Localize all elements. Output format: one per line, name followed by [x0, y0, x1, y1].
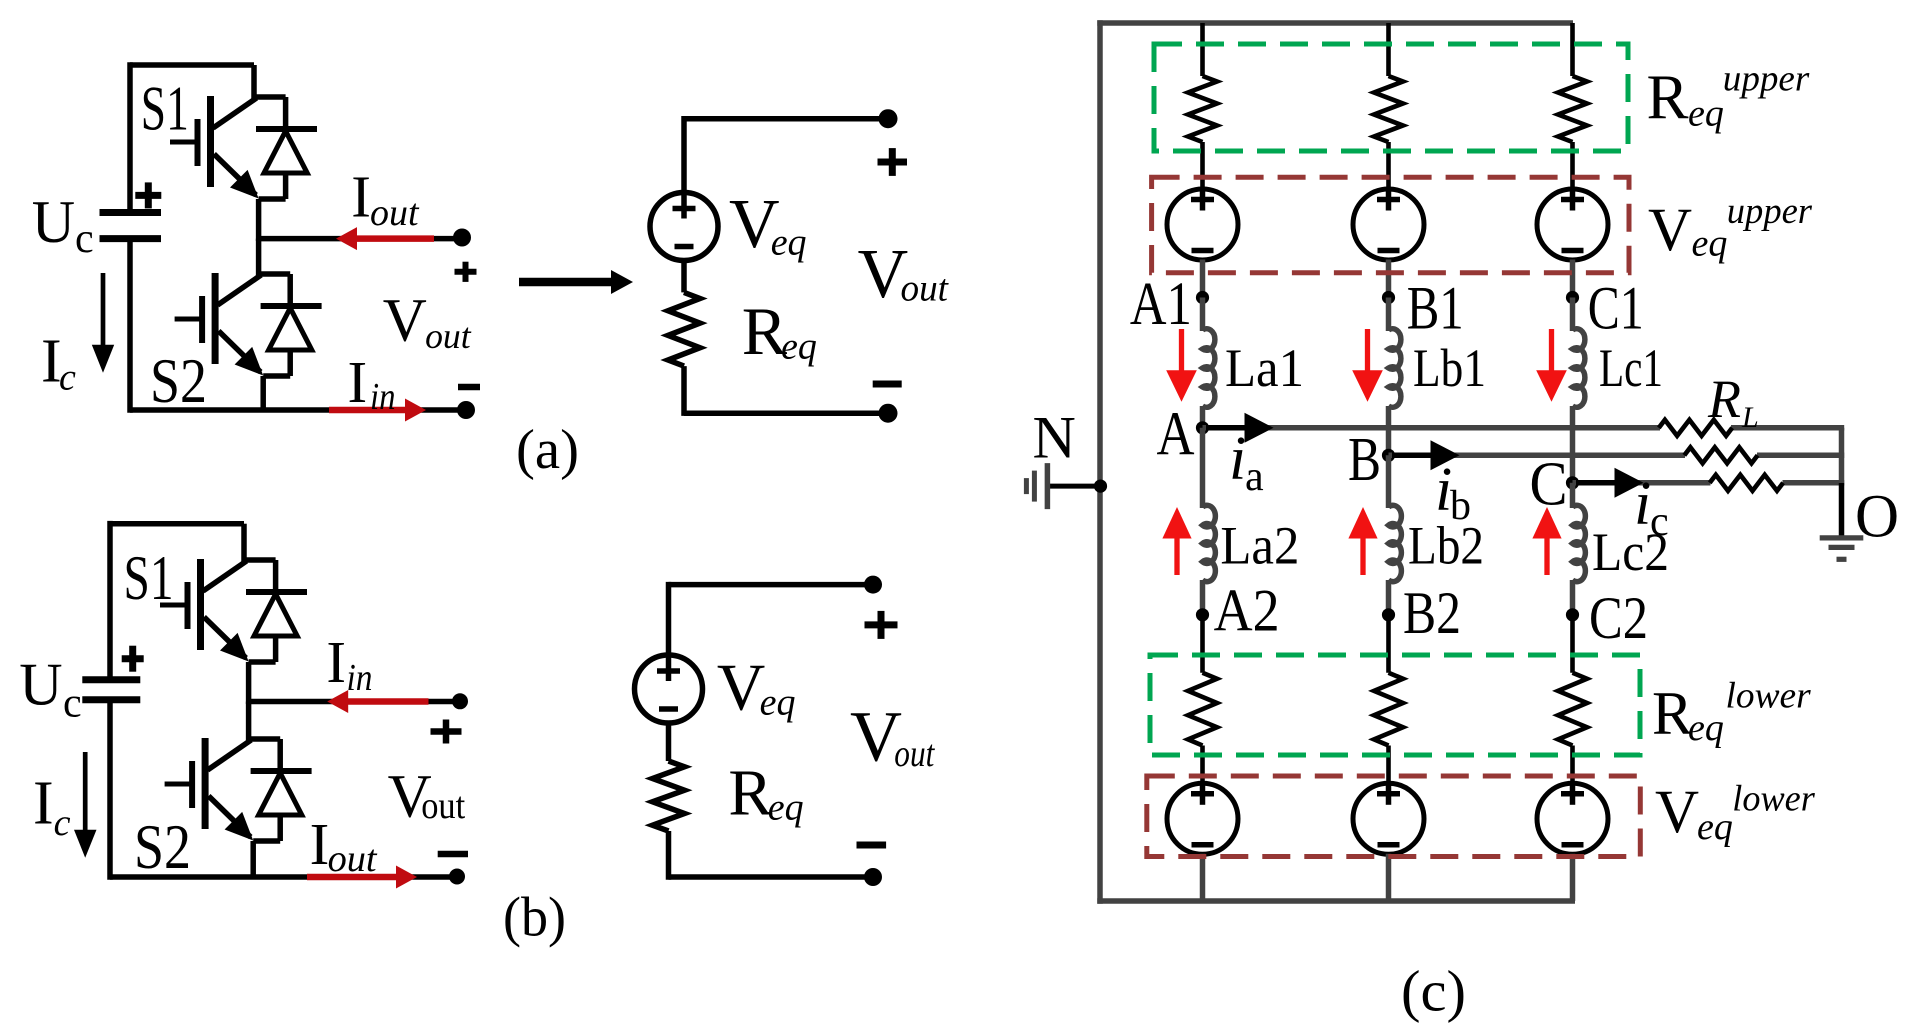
- wire node B to lower inductor (c): [1386, 455, 1392, 508]
- wire S1 collector stem (a): [251, 65, 257, 100]
- svg-text:S1: S1: [124, 543, 174, 613]
- node + terminal (b): [452, 693, 468, 709]
- inductor Lc2 (c): [1573, 505, 1586, 581]
- node + terminal eq(a): [879, 109, 898, 128]
- svg-text:upper: upper: [1723, 59, 1810, 100]
- svg-text:Lc2: Lc2: [1592, 522, 1669, 582]
- wire bottom rail eq(a): [684, 410, 888, 416]
- voltage source Veq lower phase B (c): [1353, 783, 1424, 854]
- wire Veq to Req (b): [666, 723, 672, 761]
- wire output mid rail (b): [249, 699, 460, 705]
- wire inductor to node C (c): [1570, 406, 1576, 483]
- svg-text:upper: upper: [1727, 191, 1813, 232]
- voltage source Veq lower phase C (c): [1537, 783, 1608, 854]
- svg-text:c: c: [54, 802, 71, 844]
- wire source to node B1 (c): [1386, 260, 1392, 300]
- svg-text:out: out: [370, 192, 420, 234]
- inductor La1 (c): [1203, 329, 1215, 408]
- wire bottom rail (a): [130, 407, 466, 413]
- wire resistor to source phase A (c): [1200, 142, 1205, 190]
- wire N to ground (c): [1047, 484, 1100, 489]
- svg-text:out: out: [421, 785, 465, 827]
- svg-text:in: in: [370, 376, 396, 418]
- arrow current up Lc2 (c): [1544, 534, 1549, 575]
- arrow current up Lb2 (c): [1360, 534, 1365, 575]
- svg-text:I: I: [326, 629, 346, 695]
- svg-text:lower: lower: [1726, 676, 1812, 717]
- ground N (c): [1045, 463, 1051, 509]
- resistor Req lower phase C (c): [1558, 673, 1587, 746]
- wire inductor to node A (c): [1200, 406, 1206, 428]
- svg-text:i: i: [1229, 425, 1246, 493]
- wire top stub phase A (c): [1200, 23, 1205, 76]
- inductor Lb2 (c): [1389, 505, 1402, 581]
- svg-text:lower: lower: [1732, 778, 1815, 819]
- svg-text:S1: S1: [141, 74, 189, 144]
- svg-text:L: L: [1741, 401, 1759, 434]
- wire Veq to Req (a): [681, 261, 687, 293]
- svg-text:V: V: [383, 287, 427, 354]
- transistor S1 (a): [207, 96, 214, 187]
- wire S1 emitter to midpoint (a): [256, 199, 262, 241]
- transistor S2 (b): [202, 738, 209, 829]
- arrow current down La1 (c): [1179, 329, 1184, 375]
- svg-text:a: a: [1245, 454, 1264, 500]
- arrow Ic (b): [83, 752, 88, 834]
- capacitor Uc (a): [100, 209, 162, 216]
- diode of S1 (a): [254, 94, 286, 100]
- node output + terminal (a): [453, 229, 471, 247]
- label + eq(b): [865, 621, 898, 628]
- inductor Lb1 (c): [1389, 329, 1401, 408]
- node - terminal (b): [449, 869, 465, 885]
- wire node A1 to inductor (c): [1200, 298, 1206, 332]
- resistor RL phase C (c): [1710, 475, 1783, 491]
- transistor S1 (b): [197, 559, 204, 650]
- wire inductor to node B (c): [1386, 406, 1392, 455]
- svg-text:V: V: [717, 651, 765, 725]
- wire phase line B (c): [1389, 453, 1686, 459]
- wire Req to bottom rail (a): [681, 366, 687, 416]
- wire resistor to lower source phase B (c): [1386, 746, 1391, 785]
- wire bottom rail (c): [1097, 898, 1575, 904]
- node - terminal eq(b): [864, 868, 882, 886]
- wire Req to bottom rail (b): [666, 831, 672, 880]
- svg-text:eq: eq: [1688, 93, 1724, 135]
- voltage source Veq upper phase C (c): [1537, 189, 1608, 260]
- wire S2 collector stem (b): [246, 702, 252, 743]
- svg-text:eq: eq: [781, 326, 817, 368]
- svg-text:U: U: [32, 189, 75, 255]
- wire S2 collector stem (a): [256, 239, 262, 277]
- wire lower source to bottom rail phase B (c): [1386, 854, 1392, 901]
- svg-text:I: I: [351, 163, 371, 229]
- resistor Req upper phase C (c): [1558, 76, 1587, 142]
- svg-text:Lc1: Lc1: [1599, 338, 1663, 398]
- label - Vout terminal (b): [438, 851, 468, 858]
- wire S1 collector stem (b): [241, 524, 247, 563]
- wire source to node C1 (c): [1570, 260, 1576, 300]
- svg-text:Lb2: Lb2: [1408, 516, 1484, 576]
- label + Vout terminal (a): [455, 269, 477, 275]
- arrow Iin (a): [329, 407, 408, 414]
- arrow equivalence (a): [519, 278, 614, 287]
- label + of Uc (a): [135, 192, 161, 199]
- svg-text:(b): (b): [503, 887, 566, 949]
- svg-text:La1: La1: [1225, 338, 1304, 398]
- resistor Req (a): [668, 292, 700, 366]
- svg-text:S2: S2: [150, 346, 207, 416]
- svg-text:B2: B2: [1403, 580, 1461, 646]
- arrow ib (c): [1392, 453, 1435, 459]
- wire node A to lower inductor (c): [1200, 428, 1206, 508]
- arrow ic (c): [1576, 480, 1619, 486]
- svg-text:B1: B1: [1407, 276, 1464, 343]
- label - eq(b): [857, 842, 887, 849]
- svg-text:N: N: [1033, 404, 1076, 470]
- wire top rail (c): [1097, 20, 1573, 26]
- wire inductor to node A2 (c): [1200, 580, 1206, 615]
- svg-text:V: V: [1655, 779, 1699, 846]
- resistor Req lower phase A (c): [1188, 673, 1217, 746]
- wire top rail (a): [130, 62, 254, 68]
- svg-text:O: O: [1855, 484, 1899, 551]
- svg-text:eq: eq: [768, 787, 804, 829]
- arrow Iout (a): [354, 235, 434, 242]
- wire S2 emitter to bottom rail (b): [250, 841, 256, 879]
- resistor Req upper phase B (c): [1374, 76, 1403, 142]
- resistor Req (b): [653, 761, 685, 831]
- inductor La2 (c): [1203, 505, 1216, 581]
- voltage source Veq lower phase A (c): [1167, 783, 1238, 854]
- wire resistor to lower source phase A (c): [1200, 746, 1205, 785]
- svg-text:c: c: [59, 357, 76, 399]
- box Req lower (c): [1150, 655, 1640, 755]
- svg-text:eq: eq: [1697, 806, 1733, 848]
- wire resistor to lower source phase C (c): [1570, 746, 1575, 785]
- svg-text:C2: C2: [1589, 585, 1648, 651]
- wire lower source to bottom rail phase C (c): [1570, 854, 1576, 901]
- label - Vout terminal (a): [458, 384, 480, 391]
- wire node C2 to lower resistor (c): [1570, 615, 1575, 673]
- node B1 (c): [1382, 291, 1395, 304]
- svg-text:R: R: [728, 757, 772, 830]
- svg-text:I: I: [33, 769, 54, 837]
- box Veq lower (c): [1147, 776, 1641, 857]
- wire bottom rail eq(b): [669, 874, 874, 880]
- wire resistor to source phase C (c): [1570, 142, 1575, 190]
- box Req upper (c): [1154, 44, 1628, 151]
- svg-text:c: c: [75, 216, 94, 262]
- arrow ia (c): [1206, 425, 1249, 431]
- diode of S1 (b): [244, 557, 276, 563]
- diode of S2 (b): [249, 736, 281, 742]
- svg-text:B: B: [1348, 426, 1381, 494]
- svg-text:C1: C1: [1588, 276, 1644, 343]
- svg-text:eq: eq: [1692, 223, 1728, 265]
- wire bottom rail (b): [110, 874, 458, 880]
- wire top stub phase C (c): [1570, 23, 1575, 76]
- wire node B2 to lower resistor (c): [1386, 615, 1391, 673]
- wire load bus to ground O (c): [1839, 428, 1845, 483]
- voltage source Veq (a): [650, 193, 718, 261]
- label + of Uc (b): [122, 655, 144, 662]
- wire top rail eq(a): [684, 116, 888, 122]
- inductor Lc1 (c): [1573, 329, 1585, 408]
- wire source to node A1 (c): [1200, 260, 1206, 300]
- svg-text:V: V: [1648, 197, 1692, 264]
- svg-text:I: I: [310, 811, 330, 877]
- node A2 (c): [1196, 608, 1209, 621]
- svg-text:out: out: [894, 733, 935, 775]
- node output - terminal (a): [457, 401, 475, 419]
- arrow Ic (a): [101, 273, 106, 349]
- resistor RL phase B (c): [1684, 447, 1757, 463]
- voltage source Veq (b): [635, 655, 703, 723]
- wire left rail N bus (c): [1097, 20, 1103, 904]
- label - eq(a): [873, 381, 902, 388]
- capacitor Uc (b): [82, 676, 140, 683]
- resistor RL phase A (c): [1659, 420, 1732, 436]
- node + terminal eq(b): [864, 576, 882, 594]
- svg-text:R: R: [1647, 63, 1689, 133]
- svg-text:c: c: [63, 681, 82, 727]
- node C2 (c): [1566, 608, 1579, 621]
- wire phase line A (c): [1203, 425, 1661, 431]
- diode of S2 (a): [259, 271, 291, 277]
- wire S2 emitter to bottom rail (a): [260, 376, 266, 412]
- wire inductor to node B2 (c): [1386, 580, 1392, 615]
- wire phase line C (c): [1573, 480, 1711, 486]
- svg-text:S2: S2: [134, 812, 191, 882]
- wire output mid rail (a): [259, 236, 462, 242]
- svg-text:R: R: [1707, 369, 1741, 429]
- svg-text:U: U: [19, 652, 62, 718]
- svg-text:I: I: [348, 349, 368, 415]
- svg-text:(a): (a): [516, 419, 579, 481]
- wire top rail (b): [110, 521, 244, 527]
- node B2 (c): [1382, 608, 1395, 621]
- node - terminal eq(a): [879, 404, 898, 423]
- svg-text:in: in: [347, 657, 373, 699]
- wire node B1 to inductor (c): [1386, 298, 1392, 332]
- wire node C to lower inductor (c): [1570, 483, 1576, 508]
- wire node A2 to lower resistor (c): [1200, 615, 1205, 673]
- svg-text:(c): (c): [1401, 959, 1466, 1024]
- ground O (c): [1820, 535, 1864, 540]
- arrow Iout (b): [307, 874, 399, 881]
- wire top rail eq(b): [669, 582, 874, 588]
- arrow Iin (b): [345, 698, 428, 705]
- node C1 (c): [1566, 291, 1579, 304]
- arrow current up La2 (c): [1174, 534, 1179, 575]
- transistor S2 (a): [212, 273, 219, 364]
- svg-text:eq: eq: [760, 682, 796, 724]
- label + Vout terminal (b): [431, 728, 462, 735]
- node C (c): [1566, 476, 1579, 489]
- node A1 (c): [1196, 291, 1209, 304]
- voltage source Veq upper phase A (c): [1167, 189, 1238, 260]
- svg-text:out: out: [328, 838, 378, 880]
- arrow current down Lc1 (c): [1549, 329, 1554, 375]
- wire left rail below Uc (a): [127, 239, 133, 413]
- wire inductor to node C2 (c): [1570, 580, 1576, 615]
- wire S1 emitter to midpoint (b): [246, 662, 252, 704]
- node A (c): [1196, 421, 1209, 434]
- svg-text:C: C: [1530, 451, 1568, 519]
- svg-text:eq: eq: [771, 221, 807, 263]
- svg-text:La2: La2: [1220, 516, 1299, 576]
- box Veq upper (c): [1152, 177, 1629, 273]
- node B (c): [1382, 449, 1395, 462]
- wire resistor to source phase B (c): [1386, 142, 1391, 190]
- wire left rail below Uc (b): [107, 700, 113, 880]
- arrow current down Lb1 (c): [1365, 329, 1370, 375]
- svg-text:R: R: [1652, 680, 1693, 747]
- svg-text:out: out: [425, 316, 472, 356]
- wire lower source to bottom rail phase A (c): [1200, 854, 1206, 901]
- resistor Req lower phase B (c): [1374, 673, 1403, 746]
- svg-text:eq: eq: [1688, 707, 1724, 749]
- resistor Req upper phase A (c): [1188, 76, 1217, 142]
- wire node C1 to inductor (c): [1570, 298, 1576, 332]
- svg-text:A: A: [1157, 400, 1195, 468]
- voltage source Veq upper phase B (c): [1353, 189, 1424, 260]
- wire top stub phase B (c): [1386, 23, 1391, 76]
- svg-text:A2: A2: [1214, 578, 1280, 644]
- svg-text:A1: A1: [1130, 271, 1192, 338]
- svg-text:Lb1: Lb1: [1413, 338, 1486, 398]
- label + eq(a): [878, 159, 908, 166]
- node N junction (c): [1094, 480, 1107, 493]
- svg-text:out: out: [901, 268, 950, 310]
